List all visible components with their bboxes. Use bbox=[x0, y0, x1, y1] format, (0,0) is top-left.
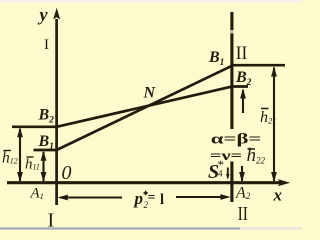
svg-text:=: = bbox=[148, 190, 156, 205]
ray B2 to B2' bbox=[57, 87, 232, 127]
II line scan fade bbox=[230, 30, 234, 33]
ray B1 to B1' bbox=[57, 66, 232, 150]
left B1 horizontal line bbox=[34, 149, 59, 152]
h11 up arrowhead bbox=[41, 151, 47, 161]
h11 overbar bbox=[27, 156, 34, 158]
h11 down arrowhead bbox=[41, 172, 47, 182]
h22 up arrowhead bbox=[240, 88, 246, 98]
svg-text:I: I bbox=[44, 37, 49, 53]
svg-text:0: 0 bbox=[62, 162, 72, 184]
right B2 horizontal line bbox=[231, 85, 249, 88]
h21 down arrowhead bbox=[271, 172, 277, 182]
bottom border band bbox=[0, 227, 240, 229]
h12 up arrowhead bbox=[17, 127, 23, 137]
left B2 horizontal line bbox=[12, 125, 58, 128]
h12 overbar bbox=[4, 150, 12, 152]
h22 lower arrow line bbox=[241, 166, 243, 181]
right B1 horizontal line bbox=[231, 64, 286, 67]
x-axis arrowhead bbox=[278, 179, 290, 186]
h22 down arrowhead bbox=[239, 172, 245, 182]
line II lower segment bbox=[230, 162, 233, 203]
p2 right arrowhead bbox=[220, 194, 230, 200]
svg-text:N: N bbox=[143, 85, 157, 102]
h12 down arrowhead bbox=[17, 172, 23, 182]
top border band bbox=[0, 0, 302, 2]
h21 overbar bbox=[261, 108, 269, 110]
svg-text:y: y bbox=[38, 5, 49, 25]
h22 upper arrow line bbox=[242, 90, 244, 113]
x-axis bbox=[7, 181, 281, 184]
y-axis line I bbox=[55, 19, 58, 205]
svg-text:4: 4 bbox=[218, 169, 223, 179]
line II upper segment bbox=[230, 12, 233, 129]
svg-text:x: x bbox=[273, 186, 283, 205]
h22 overbar bbox=[248, 148, 256, 150]
y-axis arrowhead bbox=[53, 8, 60, 20]
svg-text:l: l bbox=[160, 192, 164, 208]
h11 dimension line bbox=[42, 152, 44, 181]
svg-text:II: II bbox=[238, 203, 248, 225]
svg-text:I: I bbox=[48, 210, 55, 231]
h12 dimension line bbox=[19, 129, 21, 181]
S4 tick arrowhead bbox=[226, 174, 229, 180]
p2 dimension right arrow line bbox=[176, 196, 227, 198]
svg-text:p: p bbox=[133, 189, 144, 208]
h21 up arrowhead bbox=[271, 66, 277, 76]
h21 dimension line bbox=[273, 68, 275, 182]
S4 tick bbox=[227, 168, 229, 178]
p2 left arrowhead bbox=[58, 195, 68, 201]
p2 dimension left arrow line bbox=[60, 196, 122, 198]
svg-text:II: II bbox=[236, 43, 248, 64]
